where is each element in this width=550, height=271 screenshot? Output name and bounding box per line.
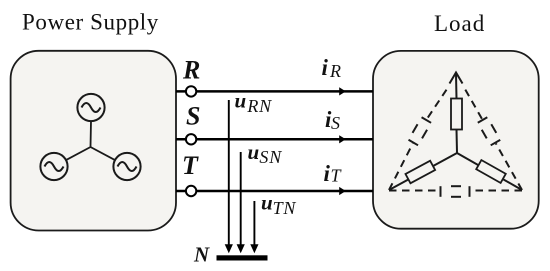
dashed delta side bottom <box>389 190 522 192</box>
svg-text:N: N <box>193 243 210 267</box>
wire S <box>176 138 373 141</box>
svg-text:RN: RN <box>246 96 272 116</box>
voltage arrow u_SN <box>240 152 242 245</box>
svg-text:R: R <box>329 61 341 81</box>
svg-text:u: u <box>261 191 273 215</box>
load star: right arm <box>457 153 522 190</box>
svg-text:i: i <box>322 55 329 80</box>
svg-text:SN: SN <box>259 147 282 167</box>
svg-text:Power Supply: Power Supply <box>22 10 159 35</box>
svg-text:R: R <box>182 55 200 84</box>
voltage arrow u_RN <box>228 100 230 245</box>
arrowhead i_S <box>339 135 346 143</box>
svg-text:Load: Load <box>434 11 485 36</box>
voltage arrow u_TN <box>253 201 255 245</box>
dashed delta side right <box>465 90 522 190</box>
dashed delta resistor right <box>478 117 500 145</box>
load resistor right (star) <box>476 160 506 183</box>
terminal T <box>186 186 196 196</box>
load star: top arm wire with arrow <box>450 73 463 154</box>
wire T <box>176 190 373 193</box>
wire R <box>176 90 373 93</box>
neutral bar N <box>217 255 268 260</box>
arrowhead i_T <box>339 187 346 195</box>
terminal R <box>186 86 196 96</box>
svg-text:S: S <box>186 101 200 130</box>
terminal S <box>186 134 196 144</box>
svg-text:i: i <box>324 161 331 186</box>
load box <box>373 51 539 229</box>
star-point wires of source <box>67 121 115 160</box>
svg-text:TN: TN <box>273 198 297 218</box>
AC source V3 (right) <box>113 153 140 180</box>
AC source V1 (top) <box>77 94 104 121</box>
dashed delta resistor bottom <box>441 186 470 197</box>
dashed delta side left <box>389 90 447 190</box>
arrowhead i_R <box>339 87 346 95</box>
load resistor left (star) <box>405 161 435 184</box>
svg-text:S: S <box>331 113 340 133</box>
load resistor top (star) <box>451 99 462 130</box>
load star: left arm <box>389 153 457 190</box>
svg-text:u: u <box>235 89 247 113</box>
power supply box <box>11 51 176 231</box>
AC source V2 (left) <box>40 153 67 180</box>
dashed delta resistor left <box>409 117 432 145</box>
svg-text:u: u <box>248 140 260 164</box>
svg-text:T: T <box>182 151 199 180</box>
